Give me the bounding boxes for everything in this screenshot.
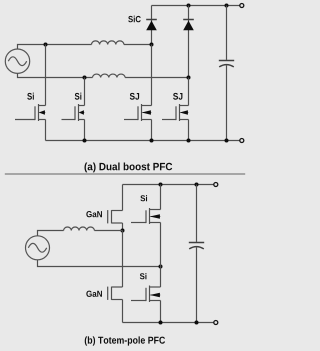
label Si (Q1) [27,93,34,100]
wire: Q2 drain lead [84,78,86,106]
label SiC [128,16,141,23]
wire: Q1 source lead [45,120,47,141]
terminal - output (b) [214,321,218,325]
node A: L1/D1/Q3 drain junction [150,43,154,47]
transistor Q1 (Si MOSFET) [35,104,46,121]
label Si (Q2) [75,93,82,100]
node: C2 bottom junction [195,321,199,325]
wire: top DC+ rail (a) [152,5,240,7]
wire: V2 top to L3 [38,231,64,237]
transistor Q2 (Si MOSFET) [75,104,85,121]
wire: Q8 gate lead [131,300,146,302]
wire: Q3 source lead [151,120,153,141]
caption (b) [85,336,165,345]
transistor Q3 (SJ MOSFET) [138,104,152,121]
node B: L2/D2/Q4 drain junction [187,76,191,80]
wire: Q8 drain lead [160,267,162,288]
wire: Q7 drain lead [160,185,162,210]
wire: bottom DC- rail (b) [123,322,214,324]
wire: Q1 gate lead [15,119,35,121]
label GaN (Q5) [86,211,102,217]
divider rule [5,173,245,175]
label Si (Q8) [140,273,147,279]
wire: Q8 source lead [160,301,162,323]
wire: Q5 drain lead [122,185,124,211]
inductor L3 [64,227,95,230]
transistor Q5 (GaN HEMT high side) [108,210,123,223]
node: Q2 source junction [83,139,87,143]
node: Q1 drain junction [44,43,48,47]
diode D2 (boost diode) [183,6,194,78]
AC source V1 [5,49,29,73]
node: Si leg midpoint [159,265,163,269]
terminal - output (a) [240,139,244,143]
transistor Q6 (GaN HEMT low side) [108,287,123,300]
wire: Q3 drain lead [151,45,153,106]
wire: Q4 gate lead [162,119,176,121]
inductor L2 [93,74,126,77]
node: C1 top junction [225,4,229,8]
label SJ (Q3) [130,93,139,100]
caption (a) [84,163,172,173]
wire: top DC+ rail (b) [123,184,214,186]
label GaN (Q6) [86,291,102,297]
wire: GaN leg midpoint to Q6 drain (crosses AC return) [122,231,124,288]
wire: Q2 source lead [84,120,86,141]
wire: L1 to node A [124,44,152,46]
wire: Q1 drain lead [45,45,47,106]
node: D2 cathode junction [187,4,191,8]
diode D1 (SiC boost diode) [146,6,157,45]
terminal + output (b) [214,183,218,187]
node: C2 top junction [195,183,199,187]
wire: Q2 gate lead [62,119,76,121]
label SJ (Q4) [173,93,182,100]
transistor Q7 (Si MOSFET high side) [146,208,161,224]
wire: Q7 source lead to midpoint [160,223,162,267]
wire: Q7 gate lead [131,222,146,224]
capacitor C1 (DC bus cap, circuit a) [219,6,234,141]
wire: V2 bottom return to Si leg [38,260,161,267]
label Si (Q7) [140,195,147,201]
wire: Q4 drain lead [188,78,190,106]
node: Si leg bottom junction [159,321,163,325]
node: Q2 drain junction [83,76,87,80]
node: Q3 source junction [150,139,154,143]
node: Si leg top junction [159,183,163,187]
wire: Q5 source lead [122,223,124,231]
capacitor C2 (DC bus cap, circuit b) [189,185,204,323]
wire: bottom DC- rail (a) [46,140,240,142]
wire: Q6 source lead [122,300,124,323]
wire: V1 bottom to return line [18,73,93,77]
wire: L3 to GaN midpoint [94,230,122,232]
node: Q4 source junction [187,139,191,143]
node: GaN leg midpoint [121,229,125,233]
terminal + output (a) [240,4,244,8]
AC source V2 [26,236,50,260]
inductor L1 [92,41,124,45]
wire: Q3 gate lead [124,119,138,121]
wire: Q4 source lead [188,120,190,141]
transistor Q8 (Si MOSFET low side) [146,286,161,303]
transistor Q4 (SJ MOSFET) [176,104,189,121]
node: C1 bottom junction [225,139,229,143]
wire: L2 to node B [125,77,188,79]
wire: V1 top to line [18,45,92,50]
